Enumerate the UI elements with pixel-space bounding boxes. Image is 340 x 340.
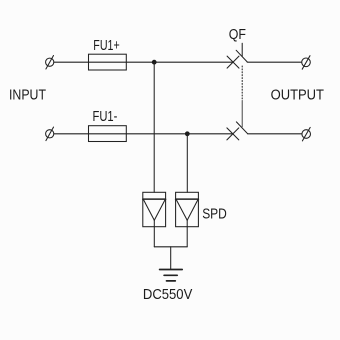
- surge arrester SPD2 body: [176, 192, 199, 226]
- wire bottom rail: [54, 133, 233, 135]
- node junction dot top: [152, 60, 157, 65]
- breaker QF blade top pole: [236, 50, 247, 62]
- breaker mechanical linkage (dotted): [241, 66, 243, 101]
- wire ground stem: [170, 247, 172, 270]
- wire SPD1 bottom lead: [153, 227, 155, 247]
- QF leader line: [241, 43, 243, 56]
- breaker QF contact X bottom pole: [227, 128, 239, 140]
- svg-text:FU1-: FU1-: [93, 109, 118, 125]
- wire joining bus: [154, 246, 187, 248]
- ground bar 1: [160, 269, 183, 271]
- wire vertical from bottom rail to SPD2: [186, 134, 188, 193]
- ground bar 3: [167, 280, 176, 282]
- fuse FU1-: [89, 126, 127, 142]
- wire SPD2 bottom lead: [186, 227, 188, 247]
- node junction dot bottom: [185, 131, 190, 136]
- wire vertical from top rail to SPD1: [153, 62, 155, 192]
- breaker QF blade bottom pole: [236, 122, 247, 134]
- wire bottom rail right: [248, 133, 302, 135]
- fuse FU1+: [89, 54, 127, 70]
- output terminal bottom: [302, 127, 311, 140]
- svg-text:OUTPUT: OUTPUT: [271, 87, 325, 103]
- wire top rail: [54, 61, 233, 63]
- svg-text:INPUT: INPUT: [9, 87, 46, 103]
- input terminal bottom (-): [46, 127, 54, 141]
- ground bar 2: [164, 274, 177, 276]
- svg-text:SPD: SPD: [202, 207, 227, 223]
- surge arrester SPD1 body: [143, 192, 166, 226]
- svg-text:FU1+: FU1+: [93, 38, 119, 54]
- breaker mechanical linkage (solid lower part): [241, 101, 243, 127]
- svg-text:QF: QF: [229, 27, 246, 43]
- svg-text:DC550V: DC550V: [143, 287, 193, 303]
- input terminal top (+): [46, 56, 54, 70]
- output terminal top: [302, 56, 311, 69]
- wire top rail right: [247, 61, 301, 63]
- breaker QF contact X top pole: [227, 56, 239, 68]
